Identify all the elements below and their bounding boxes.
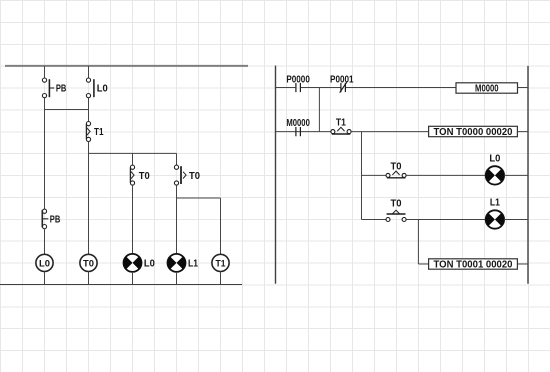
svg-text:L0: L0 — [489, 154, 500, 165]
lamp L1 — [167, 254, 185, 272]
wire lamp L1 to bottom bus — [176, 272, 178, 285]
right power rail — [527, 66, 529, 284]
svg-text:T0: T0 — [83, 258, 94, 268]
svg-text:T0: T0 — [391, 198, 402, 209]
wire branch down to timer contact T0b — [176, 153, 178, 165]
wire bus to contact L0 — [88, 66, 90, 78]
svg-text:T0: T0 — [189, 171, 200, 182]
svg-text:P0000: P0000 — [286, 74, 310, 85]
wire junction row1 (parallel link) — [45, 109, 89, 111]
function box TON T0000 00020 — [429, 126, 518, 138]
left power rail — [275, 66, 277, 284]
wire coil L0 to bottom bus — [44, 272, 46, 285]
svg-text:T1: T1 — [336, 118, 346, 129]
rung 4 wire to rail — [504, 219, 528, 221]
coil T1 — [212, 254, 229, 271]
wire contact L0 to timer contact T1 — [88, 98, 90, 122]
relay contact L0 (NO) — [86, 78, 94, 98]
wire junction row3 — [177, 197, 221, 199]
rung 5 wire left — [418, 263, 428, 265]
function box TON T0001 00020 — [429, 259, 518, 271]
svg-text:L0: L0 — [97, 84, 108, 95]
lamp L1 (ladder) — [486, 210, 504, 228]
svg-text:P0001: P0001 — [330, 74, 354, 85]
wire T0a to lamp L0 — [132, 185, 134, 254]
svg-text:L1: L1 — [490, 198, 500, 209]
rung 3 wire left — [362, 174, 387, 176]
wire coil T0 to bottom bus — [88, 272, 90, 285]
svg-text:L0: L0 — [39, 258, 50, 268]
timer contact T0 (rung3) — [386, 171, 406, 178]
lamp L0 (ladder) — [486, 166, 504, 184]
rung 1 wire right — [346, 87, 456, 89]
wire coil T1 to bottom bus — [220, 272, 222, 285]
timer contact T0 (right, NO with bar) — [174, 165, 186, 185]
wire branch down to coil T1 — [220, 198, 222, 254]
wire box TON T0000 to right rail — [517, 131, 528, 133]
contact M0000 (NO) — [296, 127, 301, 136]
wire PB1 to PB2 — [44, 98, 46, 209]
wire bus to PB1 — [44, 66, 46, 78]
svg-text:M0000: M0000 — [286, 118, 310, 129]
rung 4 wire left — [362, 219, 387, 221]
svg-text:TON T0001 00020: TON T0001 00020 — [434, 260, 513, 271]
svg-text:T1: T1 — [216, 258, 226, 268]
svg-text:T0: T0 — [139, 171, 150, 182]
svg-text:L1: L1 — [188, 259, 198, 270]
wire PB2 to coil L0 — [44, 229, 46, 255]
wire parallel branch rung1-rung2 — [318, 88, 320, 132]
svg-text:M0000: M0000 — [475, 84, 499, 95]
wire branch rung4 down to rung5 — [417, 220, 419, 265]
svg-text:T1: T1 — [94, 127, 104, 138]
timer contact T1 — [86, 122, 90, 142]
rung 3 wire right — [406, 174, 486, 176]
wire box TON T0001 to right rail — [517, 263, 528, 265]
rung 1 wire left — [276, 87, 295, 89]
wire T0b down to lamp L1 — [176, 185, 178, 254]
svg-text:PB: PB — [50, 214, 61, 225]
rung 2 wire right — [351, 131, 429, 133]
rung 1 wire middle — [301, 87, 341, 89]
wire branch rung2 down to rung4 — [361, 132, 363, 220]
timer contact T0 (rung4, NC) — [386, 210, 406, 221]
contact P0001 (NC) — [340, 82, 347, 92]
wire T1 down to coil T0 — [88, 142, 90, 255]
coil box M0000 — [456, 83, 518, 95]
wire junction row2 — [89, 152, 177, 154]
pushbutton PB2 (NC contact) — [42, 209, 48, 229]
timer contact T0 (left) — [130, 165, 134, 185]
coil L0 — [36, 254, 53, 271]
svg-text:TON T0000 00020: TON T0000 00020 — [434, 127, 513, 138]
wire bottom supply bus — [0, 284, 242, 286]
svg-text:T0: T0 — [391, 161, 402, 172]
wire branch down to timer contact T0a — [132, 153, 134, 165]
contact P0000 (NO) — [296, 83, 301, 92]
rung 2 wire left — [276, 131, 331, 133]
pushbutton PB (NO contact) — [42, 78, 54, 98]
wire lamp L0 to bottom bus — [132, 272, 134, 285]
wire top supply bus — [5, 65, 248, 67]
rung 3 wire to rail — [504, 174, 528, 176]
svg-text:PB: PB — [56, 84, 67, 95]
svg-text:L0: L0 — [144, 259, 155, 270]
coil T0 — [80, 254, 97, 271]
lamp L0 — [123, 254, 141, 272]
timer contact T1 (rung2) — [331, 127, 351, 134]
rung 4 wire right — [406, 219, 486, 221]
wire box M0000 to right rail — [518, 87, 529, 89]
